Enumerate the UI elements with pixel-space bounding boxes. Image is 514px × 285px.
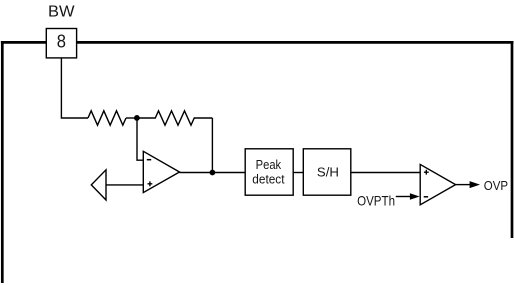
svg-text:Peak: Peak — [256, 157, 282, 172]
wire: R1 to node A — [126, 117, 137, 119]
chip boundary top edge — [1, 41, 514, 44]
wire: op-amp output to Peak detect block — [180, 172, 246, 174]
block: S/H — [303, 149, 351, 195]
wire: Peak detect to S/H — [293, 172, 303, 174]
wire arrow: comparator output to OVP — [456, 181, 480, 188]
op-amp U1 — [143, 151, 179, 192]
svg-text:OVPTh: OVPTh — [357, 193, 395, 209]
wire arrow: OVPTh to comparator inverting input — [396, 193, 420, 200]
svg-text:S/H: S/H — [317, 164, 339, 179]
comparator minus label — [424, 196, 428, 198]
comparator U2 — [420, 164, 455, 204]
wire: R2 down to node B — [211, 118, 213, 173]
svg-text:OVP: OVP — [484, 179, 508, 193]
chip boundary left edge — [1, 41, 4, 283]
input symbol (left-pointing triangle) — [91, 170, 106, 200]
wire: node A to op-amp inverting input — [137, 118, 143, 160]
svg-text:8: 8 — [57, 32, 66, 52]
op-amp U1 plus label — [148, 181, 153, 186]
block: Peak detect — [245, 149, 293, 195]
wire: input symbol to op-amp non-inverting input — [106, 184, 143, 186]
pin 8 (BW pin box) — [46, 29, 76, 58]
comparator plus label — [424, 170, 429, 175]
node A (junction dot) — [134, 115, 140, 121]
svg-text:BW: BW — [48, 3, 75, 20]
op-amp U1 minus label — [147, 159, 151, 161]
wire: S/H to comparator non-inverting input — [351, 172, 420, 174]
chip boundary right edge — [511, 41, 514, 238]
node B (junction dot) — [210, 170, 216, 176]
resistor R2 (feedback) — [137, 111, 213, 125]
wire: pin 8 down to resistor R1 — [61, 58, 88, 118]
resistor R1 — [88, 111, 126, 125]
svg-text:detect: detect — [252, 172, 285, 187]
